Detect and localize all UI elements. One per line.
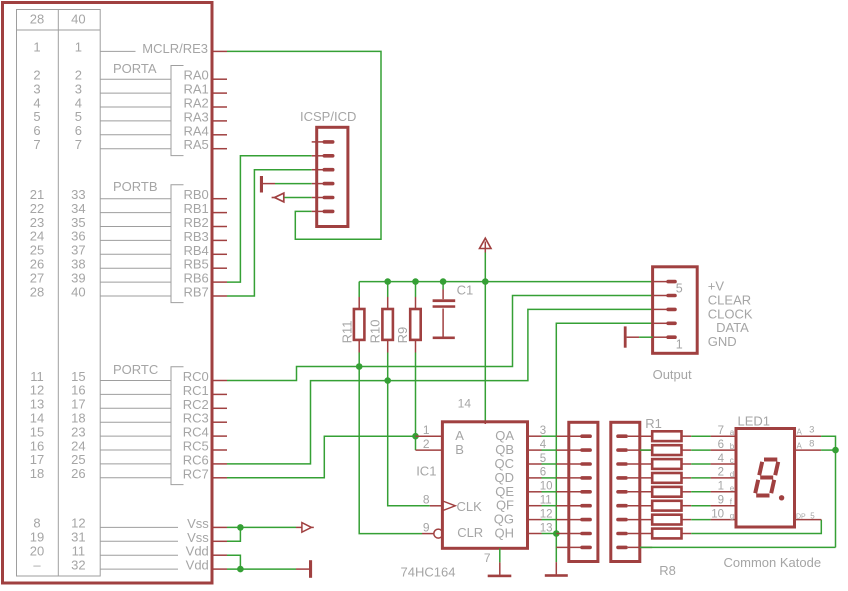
resistor R10 bottom lead [387,340,389,353]
svg-text:5: 5 [540,453,546,465]
pin line RC3 [100,421,171,423]
pin line RA3 [100,120,171,122]
resistor R3 body [652,459,681,469]
svg-text:40: 40 [71,12,85,27]
pin stub Vss2 [212,540,228,542]
wire RB7 to ICSP pin3 [227,170,312,296]
svg-text:Vdd: Vdd [186,544,209,559]
svg-text:RC3: RC3 [183,411,209,426]
ground bar under C1 [433,337,455,340]
resistor R7 body [652,515,681,525]
ICSP pin 2 lead [312,155,324,157]
JP2 pin 4 contact [616,476,628,480]
Output pin 2 lead [653,322,667,324]
svg-text:e: e [730,484,735,493]
svg-text:18: 18 [30,466,44,481]
resistor R11 top lead [358,297,360,309]
wire bus to R10 top [387,282,389,297]
wire bus to C1 top [442,282,444,290]
svg-text:R11: R11 [339,321,354,344]
JP2 pin 7 contact [616,518,628,522]
junction A/B node [412,433,419,440]
svg-text:14: 14 [458,397,472,411]
pin stub RA0 [212,78,228,80]
pin stub QE [528,491,542,493]
junction bus R10 [384,278,391,285]
JP2 pin 5 contact [616,490,628,494]
svg-text:28: 28 [30,284,44,299]
resistor R1 right lead [682,435,692,437]
pin line RB1 [100,212,171,214]
JP2 pin 9 contact [616,546,628,550]
Output pin 5 lead [653,281,667,283]
supply arrow Vss [296,526,302,528]
resistor R4 right lead [682,477,692,479]
svg-text:27: 27 [30,270,44,285]
pin line RA1 [100,92,171,94]
svg-text:18: 18 [71,411,85,426]
JP1 pin 7 lead [556,519,581,521]
resistor R8 body [652,529,681,539]
svg-text:35: 35 [71,215,85,230]
JP2 pin 3 lead [628,463,652,465]
bracket PORTC [171,367,184,485]
wire gnd to Output pin1 [639,336,653,338]
svg-text:RC1: RC1 [183,383,209,398]
svg-text:15: 15 [30,424,44,439]
LED pin stub 4 [711,491,736,493]
resistor R9 body [410,309,421,340]
Output pin 1 lead [653,336,667,338]
svg-text:DATA: DATA [716,320,749,335]
pin line RA5 [100,148,171,150]
pin stub CLK [430,505,443,507]
capacitor C1 plates [433,299,456,302]
svg-text:32: 32 [71,557,85,572]
svg-text:2: 2 [718,467,724,479]
svg-text:RB7: RB7 [184,285,209,300]
svg-text:RB4: RB4 [184,243,209,258]
svg-text:RC7: RC7 [183,466,209,481]
pin line RA0 [100,78,171,80]
resistor R4 body [652,473,681,483]
svg-text:Vdd: Vdd [186,558,209,573]
Output pin 3 lead [653,308,667,310]
wire R7 to LED [691,519,710,521]
svg-text:22: 22 [30,201,44,216]
svg-text:C1: C1 [457,282,474,297]
wire R3 to LED [691,463,710,465]
op-amp, IC1 74HC164 outline [442,422,527,549]
JP1 pin 5 lead [556,491,581,493]
ICSP pin 3 contact [323,168,335,172]
wire QC to connector [542,463,557,465]
resistor R2 body [652,445,681,455]
resistor R8 right lead [682,533,692,535]
svg-text:PORTA: PORTA [113,61,157,76]
svg-text:RC6: RC6 [183,452,209,467]
svg-text:38: 38 [71,257,85,272]
LED pin stub 5 [711,505,736,507]
PIC header block outline [3,3,213,584]
svg-text:RA0: RA0 [184,68,209,83]
svg-text:g: g [730,512,734,521]
svg-text:RA3: RA3 [184,109,209,124]
wire QH to connector [542,533,557,535]
svg-text:1: 1 [718,481,724,493]
supply bar to ICSP pin4 [260,176,263,193]
svg-text:Common Katode: Common Katode [724,555,822,570]
svg-text:10: 10 [711,508,724,520]
svg-text:RA1: RA1 [184,82,209,97]
svg-text:13: 13 [540,522,553,534]
ICSP pin 5 contact [323,196,335,200]
JP2 pin 8 lead [628,533,652,535]
pin line RC4 [100,435,171,437]
Output pin 4 contact [666,294,677,298]
svg-text:9: 9 [423,520,430,534]
LED anode pin row b stub [795,449,822,451]
pin stub RA5 [212,148,228,150]
svg-text:21: 21 [30,187,44,202]
pin stub QG [528,519,542,521]
wire +V bus [359,281,652,283]
pin line RB3 [100,239,171,241]
svg-text:QD: QD [495,470,515,485]
wire bus to R9 top [415,282,417,297]
pin line RC1 [100,393,171,395]
JP2 pin 9 lead [628,546,652,548]
wire A/B net RC7 to IC1 A [227,436,416,478]
wire Vss2 join [227,527,240,541]
pin stub Vdd2 [212,568,228,570]
svg-text:14: 14 [30,411,44,426]
pin stub QA [528,435,542,437]
JP1 pin 3 lead [556,463,581,465]
svg-text:37: 37 [71,243,85,258]
pin stub RA4 [212,134,228,136]
wire R1 to LED [691,435,710,437]
svg-text:DP: DP [796,514,806,521]
svg-text:7: 7 [33,137,40,152]
Output pin 5 contact [666,280,677,284]
wire RB6 to ICSP pin2 [227,156,312,282]
svg-text:A: A [797,428,803,437]
Output pin 1 contact [666,335,677,339]
junction bus +V [482,278,489,285]
svg-text:2: 2 [33,68,40,83]
svg-text:QB: QB [495,442,514,457]
pin stub RC6 [212,463,228,465]
wire common cathode [640,546,836,548]
svg-text:15: 15 [71,369,85,384]
wire gnd stub below JP1 [555,562,557,574]
LED pin stub 0 [711,435,736,437]
pin line RB0 [100,198,171,200]
svg-text:23: 23 [71,424,85,439]
svg-text:QC: QC [495,456,515,471]
svg-text:5: 5 [75,109,82,124]
svg-text:17: 17 [71,397,85,412]
pin stub RC2 [212,407,228,409]
wire R5 to LED [691,491,710,493]
svg-text:QH: QH [495,526,515,541]
svg-text:RB0: RB0 [184,187,209,202]
svg-text:R1: R1 [645,416,662,431]
svg-text:RA2: RA2 [184,96,209,111]
ICSP pin 4 contact [323,182,335,186]
svg-text:74HC164: 74HC164 [401,565,456,580]
pin stub QC [528,463,542,465]
wire R2 to LED [691,449,710,451]
wire anode A3 to common [821,436,835,547]
LED pin stub 2 [711,463,736,465]
JP1 pin 6 lead [556,505,581,507]
svg-text:39: 39 [71,270,85,285]
bracket PORTB [171,185,184,303]
pin stub RB5 [212,267,228,269]
ICSP pin 1 lead [312,141,324,143]
svg-text:R9: R9 [395,327,410,344]
svg-text:QG: QG [494,512,514,527]
Output pin 2 contact [666,322,677,326]
wire MCLR to ICSP pin6 [227,51,381,239]
svg-text:R10: R10 [368,320,383,344]
supply bar Vdd [296,568,309,570]
wire R11 to CLR [359,353,422,534]
svg-text:28: 28 [30,12,44,27]
svg-text:19: 19 [30,530,44,545]
ground bar under JP1 [545,574,568,577]
JP2 pin 1 contact [616,434,628,438]
pin 14 entry mark [484,422,486,424]
JP1 pin 1 lead [556,435,581,437]
wire arrow to ICSP pin5 [284,197,312,199]
resistor R11 body [354,309,365,340]
pin line RB2 [100,226,171,228]
pin stub Vss1 [212,526,228,528]
svg-text:RC5: RC5 [183,439,209,454]
svg-text:RA4: RA4 [184,123,209,138]
pin stub RC4 [212,435,228,437]
pin line Vdd [100,554,178,556]
wire supply to ICSP pin4 [275,183,312,185]
wire Vdd1 join [227,555,240,569]
JP1 pin 4 lead [556,477,581,479]
LED pin stub 1 [711,449,736,451]
svg-text:RC4: RC4 [183,425,209,440]
svg-text:PORTC: PORTC [113,362,158,377]
svg-text:20: 20 [30,544,44,559]
resistor R10 top lead [387,297,389,309]
JP1 pin 6 contact [580,504,592,508]
junction DATA QH [553,530,560,537]
connector Output outline [653,267,698,354]
svg-text:12: 12 [540,508,553,520]
pin stub RC0 [212,380,228,382]
resistor R7 right lead [682,519,692,521]
svg-text:5: 5 [676,281,683,295]
pin line RC5 [100,449,171,451]
pin stub B [416,449,443,451]
pin stub Vdd1 [212,554,228,556]
svg-text:2: 2 [75,68,82,83]
wire R10 to CLK [388,353,430,506]
capacitor C1 bottom lead [442,309,444,337]
JP2 pin 7 lead [628,519,652,521]
svg-text:8: 8 [423,493,430,507]
svg-text:+V: +V [708,279,725,294]
pin stub QH [528,533,542,535]
JP1 pin 9 contact [580,546,592,550]
wire Vss1 [227,526,296,528]
junction bus R9 [412,278,419,285]
resistor R11 bottom lead [358,340,360,353]
svg-text:11: 11 [72,544,86,559]
resistor R9 bottom lead [415,340,417,353]
svg-text:25: 25 [71,452,85,467]
wire QE to connector [542,491,557,493]
pin line RC6 [100,463,171,465]
JP1 pin 1 contact [580,434,592,438]
resistor R3 right lead [682,463,692,465]
svg-text:b: b [730,442,735,451]
resistor R10 body [382,309,393,340]
JP1 pin 9 lead [556,546,581,548]
svg-text:R8: R8 [659,563,676,578]
supply arrow to ICSP pin5 [275,193,284,202]
svg-text:RB1: RB1 [184,201,209,216]
ICSP pin 6 contact [323,210,335,214]
wire QA to connector [542,435,557,437]
svg-text:9: 9 [718,495,724,507]
svg-text:23: 23 [30,215,44,230]
pin line MCLR [100,50,135,52]
svg-text:Vss: Vss [187,516,209,531]
pin line RB7 [100,295,171,297]
svg-text:CLR: CLR [457,525,483,540]
svg-text:4: 4 [540,439,547,451]
pin stub RA2 [212,106,228,108]
svg-text:–: – [33,557,41,572]
pin line RB6 [100,281,171,283]
Output pin 3 contact [666,308,677,312]
LED anode pin row a stub [795,435,822,437]
svg-text:1: 1 [423,423,430,437]
JP2 pin 5 lead [628,491,652,493]
+V arrow symbol [480,238,492,248]
wire JP2 pin2 to R2 [640,449,652,451]
pin stub A [416,435,443,437]
JP2 pin 6 contact [616,504,628,508]
svg-text:6: 6 [718,439,724,451]
svg-text:1: 1 [676,337,683,351]
wire QG to connector [542,519,557,521]
svg-text:PORTB: PORTB [113,179,158,194]
pin stub RC1 [212,393,228,395]
svg-text:3: 3 [809,425,814,436]
pin stub RB3 [212,239,228,241]
pin stub RB4 [212,253,228,255]
svg-text:QE: QE [495,484,514,499]
pin line RA2 [100,106,171,108]
JP2 pin 1 lead [628,435,652,437]
resistor R5 body [652,487,681,497]
ICSP pin 6 lead [312,210,324,212]
resistor R6 right lead [682,505,692,507]
svg-text:RB2: RB2 [184,215,209,230]
digit 8 segments [755,460,778,496]
svg-text:13: 13 [30,397,44,412]
svg-text:A: A [797,441,803,450]
junction CLOCK R10 [384,377,391,384]
svg-text:RB6: RB6 [184,271,209,286]
svg-text:RC0: RC0 [183,369,209,384]
JP2 pin 8 contact [616,532,628,536]
wire R9 to A/B [415,353,417,437]
pin stub RA1 [212,92,228,94]
svg-text:31: 31 [71,530,85,545]
svg-text:4: 4 [75,95,82,110]
junction Vss [237,524,244,531]
svg-text:8: 8 [809,439,814,450]
pin stub RB1 [212,212,228,214]
svg-text:QF: QF [496,498,514,513]
connector JP2 outline [611,422,640,561]
wire QB to connector [542,449,557,451]
svg-text:7: 7 [718,425,724,437]
svg-text:16: 16 [30,438,44,453]
pin stub MCLR [212,50,228,52]
ICSP pin 5 lead [312,197,324,199]
svg-text:26: 26 [71,466,85,481]
pin stub RB0 [212,198,228,200]
svg-text:24: 24 [71,438,85,453]
resistor R9 top lead [415,297,417,309]
svg-text:3: 3 [33,81,40,96]
LED1 display outline [736,429,795,528]
svg-text:6: 6 [75,123,82,138]
svg-text:RB3: RB3 [184,229,209,244]
svg-text:5: 5 [33,109,40,124]
LED pin stub 6 [711,519,736,521]
svg-text:1: 1 [33,40,40,55]
pin line RA4 [100,134,171,136]
JP1 pin 7 contact [580,518,592,522]
junction CLEAR R11 [356,363,363,370]
Output pin 4 lead [653,295,667,297]
svg-text:a: a [730,428,735,437]
JP1 pin 8 contact [580,532,592,536]
ICSP pin 2 contact [323,154,335,158]
svg-text:ICSP/ICD: ICSP/ICD [300,109,356,124]
pin stub QD [528,477,542,479]
svg-text:1: 1 [75,40,82,55]
svg-text:2: 2 [423,437,430,451]
svg-text:10: 10 [540,481,553,493]
JP2 pin 4 lead [628,477,652,479]
pin stub RB7 [212,295,228,297]
JP2 pin 2 lead [628,449,652,451]
junction common anode [832,447,839,454]
svg-text:5: 5 [810,511,815,520]
svg-text:CLK: CLK [457,499,483,514]
resistor R5 right lead [682,491,692,493]
wire DATA net output pin2 to QH and gnd [556,323,652,562]
pin line RB4 [100,253,171,255]
svg-text:4: 4 [33,95,40,110]
pin stub RB2 [212,226,228,228]
